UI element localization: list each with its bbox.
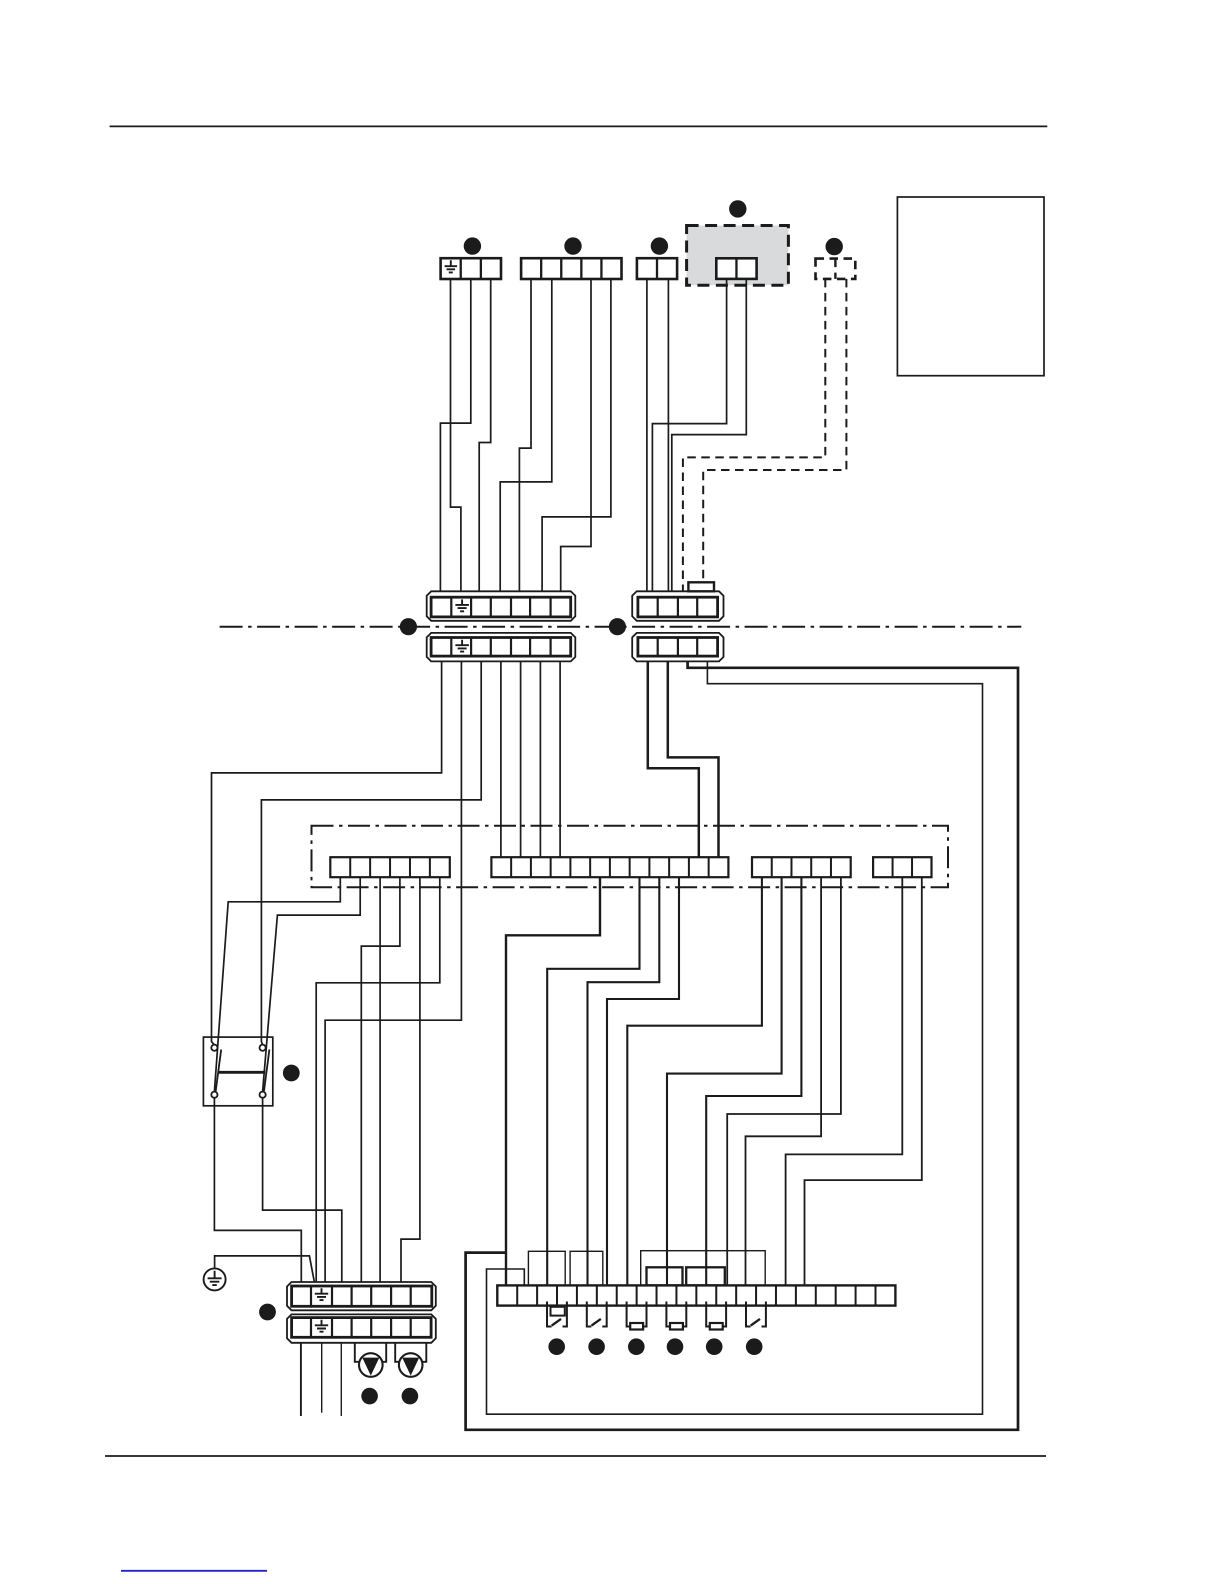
callout dot 11 (below pump M2)	[402, 1388, 419, 1405]
switch S1 contact bottom-right	[260, 1092, 266, 1098]
wire X1.2 to J1.1	[440, 279, 470, 592]
switch S1 contact top-left	[211, 1045, 217, 1051]
switch S1 contact top-right	[260, 1045, 266, 1051]
wire S1 bottom-right to X5.3	[263, 1098, 342, 1287]
wire into X6.11 (through box)	[705, 1251, 707, 1287]
wire A1 to switch S1 bottom-left	[214, 877, 340, 1091]
terminal strip D (3-pole)	[873, 857, 931, 877]
callout dot 10 (below pump M1)	[361, 1388, 378, 1405]
loop wire J2.3 around page to X6.1 riser	[466, 661, 1018, 1429]
PE1 earth symbol	[208, 1271, 222, 1285]
contact box over X6.11	[686, 1267, 725, 1285]
callout dot 8 (switch S1)	[283, 1065, 300, 1082]
relay outline over X6.8-13	[641, 1251, 766, 1286]
jumper box under X6.3-4	[551, 1307, 565, 1316]
wire X5 to pump M1	[355, 1343, 386, 1362]
accessory module (dashed, shaded)	[687, 226, 789, 286]
callout dot 15	[667, 1338, 684, 1355]
wire X3.1 to J2.1	[646, 279, 648, 596]
wire B9 to X6.5	[588, 877, 660, 1286]
terminal strip A (6-pole)	[330, 857, 450, 877]
callout dot 5 (above optional connector)	[826, 238, 843, 255]
wire A5 to X5.6	[401, 877, 420, 1287]
wire X5 lower cell2 (PE) exit	[321, 1343, 323, 1413]
wire into X6.3 (through box)	[546, 1251, 548, 1286]
terminal block X3 (2-pole)	[637, 258, 677, 279]
wire B6 to X6.1	[506, 877, 600, 1286]
wire C1 to X6.7	[627, 877, 762, 1286]
wire A3 to X5.5	[379, 877, 381, 1287]
wire J2.1 to strip B11	[648, 661, 699, 858]
switch S1 blade left	[216, 1050, 222, 1092]
control unit boundary (dash-dot box)	[312, 826, 949, 888]
connector J1 upper half (7-pole, PE in cell 2)	[427, 591, 576, 621]
wire C2 to X6.9	[667, 877, 782, 1286]
switch S1 blade right	[264, 1050, 269, 1092]
wire B10 to X6.6	[607, 877, 679, 1286]
contact B2 (X6.5-6)	[587, 1302, 592, 1327]
wire J1.3 to switch S1 top-right	[261, 661, 481, 1045]
wire J1.6 to strip B3	[539, 661, 541, 858]
wire J1.1 to switch S1 top-left	[212, 661, 442, 1045]
wire X2.1 to J1.5	[519, 279, 531, 592]
callout dot 1 (above X1)	[464, 237, 481, 254]
wire into X6.12 (through box)	[726, 1251, 728, 1287]
wire X3.2 to J2.2	[667, 279, 669, 596]
wire J1.4 to strip B1	[500, 661, 502, 858]
loop wire J2.4 around page to X6.2	[487, 661, 983, 1414]
callout dot 7 (on centerline middle)	[609, 618, 626, 635]
wire X5 to pump M2	[395, 1343, 426, 1362]
callout dot 6 (on centerline left)	[400, 618, 417, 635]
dashed wire optional.2 to J2 aux box	[703, 279, 846, 589]
wire X5 lower cell1 exit	[300, 1343, 302, 1416]
optional connector (dashed 2-pole)	[816, 259, 856, 279]
aux box on J2 upper	[688, 582, 714, 591]
switch S1 enclosure	[203, 1037, 272, 1106]
wire C4 to X6.13	[746, 877, 822, 1286]
callout dot 4 (above accessory module)	[729, 200, 746, 217]
PE symbol in X1 cell 1	[445, 260, 458, 272]
wire X2.5 to J1.6	[542, 279, 611, 592]
section split centerline (dash-dot)	[220, 626, 1022, 628]
wire X1.3 to J1.3	[479, 279, 491, 592]
protective earth terminal PE1	[204, 1268, 226, 1290]
terminal strip B (12-pole)	[491, 857, 728, 877]
connector J2 lower half (4-pole)	[632, 633, 723, 662]
fuse F2 (X6.9-10)	[666, 1302, 670, 1327]
wire D2 to X6.15	[786, 877, 903, 1286]
wire S1 bottom-left to X5.1	[214, 1098, 301, 1287]
pressure switch contact B1 (X6.3-4)	[547, 1302, 552, 1327]
wire C5 to X6.12	[727, 877, 841, 1286]
legend box	[897, 197, 1044, 376]
wire X5 lower cell3 exit	[340, 1343, 342, 1416]
wire into X6.9 (through box)	[666, 1251, 668, 1287]
wire A4 to X5.4	[361, 877, 400, 1287]
connector X5 upper half (7-pole, PE in cell 2)	[287, 1282, 436, 1310]
wire accessory.1 to J2.1	[652, 279, 726, 596]
dashed wire optional.1 to J2.3	[683, 279, 825, 591]
jumper box over X6.5	[570, 1251, 603, 1285]
wire A6 to X5.2	[316, 877, 440, 1287]
wire J1.7 to strip B4	[559, 661, 561, 858]
callout dot 17	[746, 1338, 763, 1355]
callout dot 13	[588, 1338, 605, 1355]
wire into X6.5 (through box)	[586, 1251, 588, 1286]
jumper box over X6.3	[528, 1251, 565, 1285]
connector X5 lower half (7-pole, PE in cell 2)	[287, 1314, 436, 1342]
wire X2.4 to J1.7	[561, 279, 591, 592]
pump M1	[359, 1353, 383, 1377]
wire J1.5 to strip B2	[520, 661, 522, 858]
wire X2.2 to J1.4	[500, 279, 552, 592]
callout dot 2 (above X2)	[564, 237, 581, 254]
callout dot 16	[706, 1338, 723, 1355]
wire accessory.2 to J2.2	[672, 279, 747, 596]
wire J2.2 to strip B12	[668, 661, 719, 858]
wire A2 to switch S1 bottom-right	[263, 877, 361, 1091]
wire D3 to X6.16	[805, 877, 922, 1286]
callout dot 3 (above X3)	[651, 237, 668, 254]
wire C3 to X6.11	[706, 877, 801, 1286]
terminal strip X6 (20-pole)	[497, 1285, 895, 1305]
connector J2 upper half (4-pole)	[632, 591, 723, 621]
terminal block X1 (3-pole, PE)	[441, 258, 501, 279]
wire B8 to X6.3	[547, 877, 639, 1286]
callout dot 9 (connector X5)	[259, 1304, 276, 1321]
connector J1 lower half (7-pole, PE in cell 2)	[427, 633, 576, 662]
fuse F3 (X6.11-12)	[706, 1302, 710, 1327]
wire into X6.13 (through box)	[745, 1251, 747, 1287]
connector on accessory module (2-pole)	[716, 258, 756, 279]
wire X1.1 to J1.2	[451, 279, 461, 592]
contact B3 (X6.13-14)	[746, 1302, 751, 1327]
pump M2	[399, 1353, 423, 1377]
fuse F1 (X6.7-8)	[627, 1302, 631, 1327]
terminal strip C (5-pole)	[752, 857, 851, 877]
switch S1 mechanical link	[218, 1071, 265, 1074]
terminal block X2 (5-pole)	[521, 258, 621, 279]
contact box over X6.9	[647, 1267, 683, 1285]
callout dot 12	[548, 1338, 565, 1355]
callout dot 14	[628, 1338, 645, 1355]
switch S1 contact bottom-left	[211, 1092, 217, 1098]
wire PE1 to X5.2 area	[215, 1256, 316, 1287]
wire J1.2 (PE) to X5.2	[325, 661, 461, 1287]
